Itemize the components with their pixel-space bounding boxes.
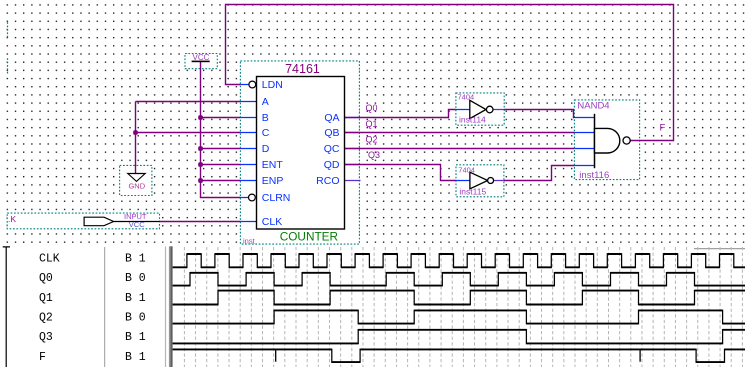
svg-text:Q0: Q0 [39,272,53,285]
svg-text:B 1: B 1 [125,351,146,364]
svg-text:ENT: ENT [262,159,284,171]
svg-text:QD: QD [324,159,340,171]
svg-text:LDN: LDN [262,79,283,91]
svg-text:COUNTER: COUNTER [280,230,338,244]
svg-text:CLK: CLK [262,216,282,228]
svg-text:inst116: inst116 [579,170,609,181]
svg-text:inst115: inst115 [459,186,486,196]
svg-text:7404: 7404 [458,166,475,175]
svg-text:Q1: Q1 [39,292,53,305]
svg-text:.K: .K [8,214,16,224]
svg-text:CLRN: CLRN [262,192,291,204]
svg-text:QC: QC [324,143,340,155]
svg-text:Q2: Q2 [366,135,378,145]
svg-text:VCC: VCC [129,220,145,229]
svg-text:Q0: Q0 [366,103,378,113]
svg-text:F: F [39,351,46,364]
svg-text:Q3: Q3 [368,150,380,160]
svg-text:B 1: B 1 [125,252,146,265]
svg-text:CLK: CLK [39,252,60,265]
svg-text:QA: QA [324,112,339,124]
svg-text:B 0: B 0 [125,312,146,325]
svg-text:C: C [262,127,270,139]
svg-text:B: B [262,112,269,124]
svg-text:7404: 7404 [458,93,475,102]
svg-text:B 1: B 1 [125,292,146,305]
svg-text:inst: inst [243,236,256,245]
svg-text:B 1: B 1 [125,331,146,344]
svg-text:inst114: inst114 [459,114,486,124]
svg-text:Q3: Q3 [39,331,53,344]
svg-text:GND: GND [128,181,145,190]
svg-text:74161: 74161 [285,62,320,76]
svg-text:D: D [262,143,270,155]
svg-text:Q2: Q2 [39,312,53,325]
svg-text:Q1: Q1 [366,119,378,129]
svg-text:F: F [660,123,666,134]
svg-text:QB: QB [324,127,339,139]
svg-text:A: A [262,96,269,108]
svg-text:B 0: B 0 [125,272,146,285]
svg-text:RCO: RCO [316,175,339,187]
svg-text:NAND4: NAND4 [577,100,609,111]
svg-text:ENP: ENP [262,175,284,187]
